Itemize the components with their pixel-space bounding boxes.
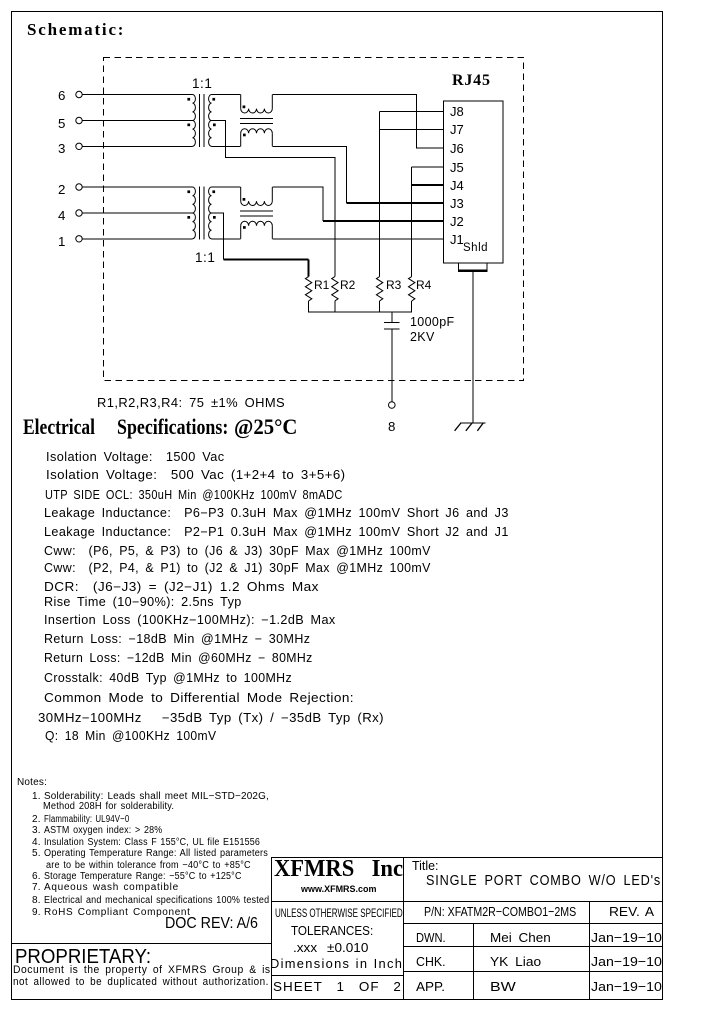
heading Schematic:: [27, 20, 125, 40]
RJ45 pin label J5: [450, 161, 464, 176]
pin label 3: [58, 141, 65, 156]
RJ45 connector U1 body: [444, 101, 504, 263]
resistor value note: [97, 396, 279, 410]
notes: [17, 777, 47, 789]
pin 3 terminal circle: [76, 143, 82, 149]
pin 5 terminal circle: [76, 117, 82, 123]
choke L1 bottom winding: [241, 129, 273, 147]
pin label 2: [58, 182, 65, 197]
wire pin 4 to T2 primary center tap: [82, 212, 192, 214]
wire pin 1 to T2 primary bottom: [82, 238, 192, 240]
pin 1 terminal circle: [76, 236, 82, 242]
RJ45 shield label Shld: [463, 242, 488, 255]
RJ45 pin label J6: [450, 142, 464, 157]
resistor label R1: [314, 279, 329, 293]
wire T2 secondary bottom to choke L2: [212, 238, 241, 240]
choke L1 core: [240, 118, 273, 123]
resistor label R4: [416, 279, 431, 293]
RJ45 shield tab: [459, 263, 487, 272]
choke L1 dot (bottom): [243, 134, 246, 137]
wire pin 5 to T1 primary center tap: [82, 120, 192, 122]
capacitor C1 plates: [384, 323, 399, 330]
capacitor C1 rating 2KV: [410, 330, 435, 344]
wire choke L1 bottom toward J3 (down at x346.5): [272, 146, 346, 203]
transformer T1 primary dot (center): [187, 124, 190, 127]
transformer T2 secondary dot (top): [212, 190, 215, 193]
transformer T1 secondary winding: [209, 95, 212, 147]
wire RJ45 shield to chassis ground: [472, 272, 474, 423]
wire choke L1 top to J6 (down at x416.5): [272, 95, 443, 148]
RJ45 pin label J4: [450, 179, 464, 194]
wire termination bus: [308, 311, 412, 313]
transformer T1 primary dot (top): [187, 98, 190, 101]
resistor R3 body: [376, 277, 382, 301]
wire pin 2 to T2 primary top: [82, 186, 192, 188]
choke L2 bottom winding: [241, 221, 273, 239]
chassis ground bar: [460, 422, 486, 424]
wire R4 bottom lead: [411, 301, 413, 312]
wire T1 secondary bottom to choke L1: [212, 145, 241, 147]
wire R1 bottom lead: [308, 301, 310, 312]
resistor R1 body: [305, 277, 311, 301]
heading Electrical Specifications: [23, 414, 113, 439]
common-mode choke L2 top winding: [241, 187, 273, 206]
wire R2 bottom lead: [334, 301, 336, 312]
choke L2 dot (top): [243, 198, 246, 201]
wire center tap to R1 (thick): [223, 259, 308, 276]
transformer T1 secondary dot (top): [212, 98, 215, 101]
RJ45 pin label J2: [450, 215, 464, 230]
transformer T2 primary winding: [193, 187, 196, 239]
RJ45 connector label: [452, 72, 491, 90]
choke L2 dot (bottom): [243, 226, 246, 229]
transformer T1 core: [200, 94, 205, 147]
wire J4 stub (thick): [412, 184, 444, 186]
wire capacitor C1 to node 8: [391, 329, 393, 402]
transformer T2 primary dot (center): [187, 216, 190, 219]
wire R3 bottom lead: [379, 301, 381, 312]
wire J2 stub (thick): [323, 220, 444, 222]
T1 ratio label 1:1: [192, 76, 212, 92]
page border frame: [11, 11, 663, 12]
pin label 1: [58, 234, 65, 249]
choke L2 core: [240, 211, 273, 216]
node label 8: [388, 419, 395, 434]
chassis ground hatch strokes: [455, 423, 484, 431]
transformer T1 secondary dot (center): [213, 124, 216, 127]
wire T1 secondary top to choke L1: [212, 94, 241, 96]
wire pin 3 to T1 primary bottom: [82, 145, 192, 147]
RJ45 pin label J3: [450, 197, 464, 212]
dashed schematic boundary: [104, 58, 524, 381]
pin 2 terminal circle: [76, 184, 82, 190]
common-mode choke L1 top winding: [241, 95, 273, 114]
RJ45 pin label J7: [450, 123, 464, 138]
resistor label R3: [386, 279, 401, 293]
PROPRIETARY box content: [15, 945, 165, 969]
wire choke L2 bottom to J1: [272, 238, 443, 240]
node 8 terminal circle: [389, 402, 396, 409]
transformer T2 primary dot (top): [187, 190, 190, 193]
capacitor C1 value 1000pF: [410, 315, 455, 329]
wire T2 secondary top to choke L2: [212, 186, 241, 188]
pin label 6: [58, 88, 65, 103]
electrical spec lines: [46, 450, 221, 464]
resistor label R2: [340, 279, 355, 293]
RJ45 pin label J1: [450, 233, 464, 248]
wire bus to capacitor C1: [391, 312, 393, 323]
choke L1 dot (top): [243, 106, 246, 109]
transformer T2 secondary dot (center): [213, 216, 216, 219]
wire T1 secondary center tap to R2: [212, 121, 335, 277]
title block content: [274, 856, 411, 884]
pin 6 terminal circle: [76, 91, 82, 97]
wire J3 stub (thick): [347, 202, 444, 204]
wire pin 6 to T1 primary top: [82, 94, 192, 96]
pin 4 terminal circle: [76, 210, 82, 216]
resistor R4 body: [409, 277, 415, 301]
proprietary box top rule: [11, 943, 271, 944]
transformer T2 secondary winding: [209, 187, 212, 239]
transformer T1 primary winding: [193, 95, 196, 147]
RJ45 pin label J8: [450, 105, 464, 120]
wire J8 stub and drop to R3: [380, 111, 444, 276]
wire J7 stub: [380, 129, 444, 131]
wire J5 stub and drop to R4: [412, 167, 444, 277]
pin label 5: [58, 116, 65, 131]
wire choke L2 top toward J2 (down at x322.8): [272, 187, 323, 221]
pin label 4: [58, 208, 65, 223]
T2 ratio label 1:1: [195, 250, 215, 266]
resistor R2 body: [332, 277, 338, 301]
transformer T2 core: [200, 187, 205, 240]
wire T2 secondary center tap down: [212, 213, 224, 259]
